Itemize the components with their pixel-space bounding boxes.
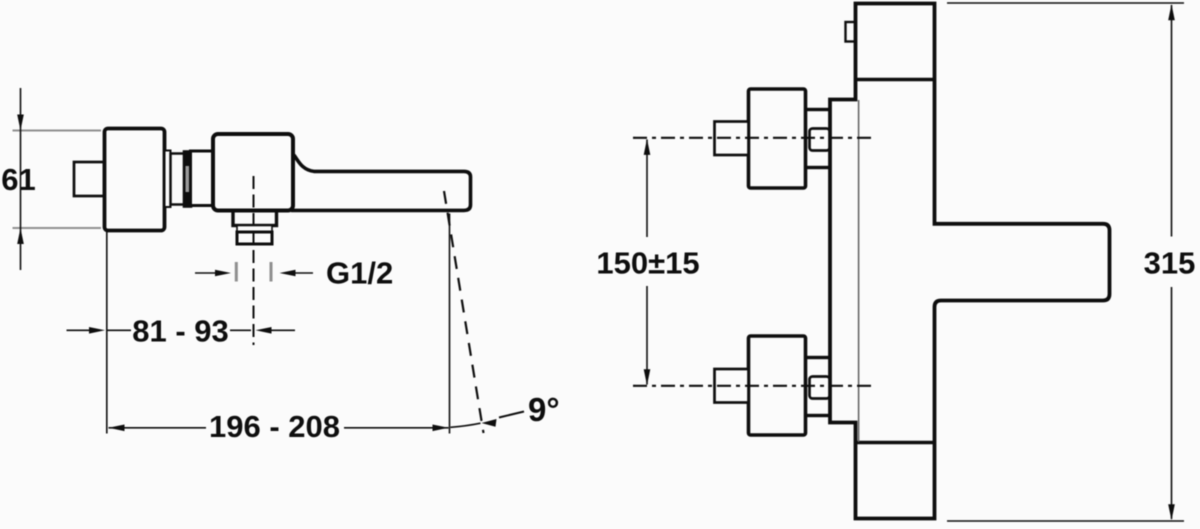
extension line top of 61 dim (13, 130, 102, 132)
upper handle end (715, 122, 749, 156)
cap notch (846, 22, 856, 42)
lower handle knob (749, 336, 806, 435)
dimension 81-93 line (67, 329, 91, 331)
upper nut (810, 129, 830, 151)
dimension 315 line bottom (1171, 287, 1173, 519)
svg-text:9°: 9° (528, 391, 560, 428)
upper handle knob (749, 89, 806, 188)
outlet centerline (253, 176, 255, 345)
arrowhead 196-208 left (109, 425, 125, 432)
arrowhead 315 bottom (1168, 504, 1175, 520)
leader dash to 9deg label (499, 412, 524, 418)
svg-text:61: 61 (1, 162, 35, 197)
narrow pipe (171, 154, 186, 205)
arrowhead 315 top (1168, 4, 1175, 20)
pipe ring (165, 151, 171, 208)
dimension 196-208 line (109, 427, 207, 429)
extension line 315 bottom (947, 520, 1184, 522)
svg-text:G1/2: G1/2 (326, 256, 393, 291)
dimension 150 line top (646, 140, 648, 238)
wide pipe (191, 151, 215, 206)
cap division top (856, 78, 934, 81)
lower adapter (805, 358, 831, 416)
svg-text:315: 315 (1144, 246, 1196, 281)
tick G1/2 right (270, 262, 273, 282)
escutcheon body (105, 129, 165, 231)
upper adapter (805, 110, 831, 168)
dimension 315 line top (1171, 5, 1173, 237)
tick G1/2 left (235, 262, 238, 282)
spout (291, 153, 471, 210)
arrowhead G1/2 right (280, 270, 296, 277)
arrowhead 61 bottom (17, 228, 24, 244)
cap division bottom (856, 441, 934, 444)
angle arc (451, 423, 481, 427)
column body outline (830, 4, 1110, 519)
svg-text:81 - 93: 81 - 93 (132, 314, 229, 349)
dimension line 61 (20, 88, 22, 270)
flange nut (184, 152, 191, 207)
lower centerline (633, 385, 872, 387)
extension line 315 top (947, 2, 1184, 4)
arrowhead 81-93 right (256, 327, 272, 334)
arrowhead 61 top (17, 115, 24, 131)
extension line bottom of 61 dim (13, 227, 102, 229)
dimension 150 line bottom (646, 286, 648, 385)
arrowhead G1/2 left (215, 270, 231, 277)
outlet section C (237, 232, 272, 244)
svg-text:196 - 208: 196 - 208 (209, 409, 340, 444)
inner thin line (858, 100, 860, 442)
mixer block (213, 134, 293, 211)
extension line from spout tip (449, 214, 451, 434)
arrowhead 81-93 left (89, 327, 105, 334)
upper centerline (633, 137, 872, 139)
angle arrowhead (482, 419, 497, 427)
spout swivel 9deg dashed line (444, 191, 484, 433)
G1/2 dimension line (195, 272, 216, 274)
outlet section A (233, 206, 277, 226)
svg-text:150±15: 150±15 (596, 246, 699, 281)
arrowhead 150 top (644, 139, 651, 155)
lower nut (810, 377, 830, 399)
lower handle end (715, 369, 749, 403)
arrowhead 150 bottom (644, 369, 651, 385)
wall stub (74, 162, 104, 196)
arrowhead 196-208 right (433, 425, 449, 432)
extension line from escutcheon face (106, 231, 108, 434)
outlet ring B (237, 226, 272, 233)
